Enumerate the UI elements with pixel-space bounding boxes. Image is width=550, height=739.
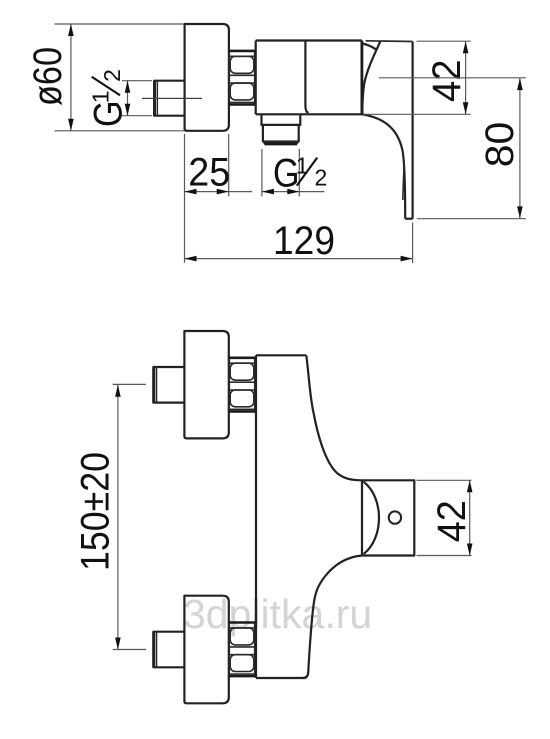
handle pivot hole (bottom view) [389, 511, 401, 523]
handle end plate (bottom view) [362, 480, 414, 555]
svg-text:25: 25 [188, 150, 230, 194]
stub top centerline + 150 extension (bottom view) [113, 383, 146, 385]
dimension 129 (top view) [185, 219, 413, 263]
wall flange bottom (bottom view) [184, 596, 228, 704]
hex nut top (bottom view) [229, 357, 256, 413]
svg-text:1: 1 [296, 152, 309, 178]
svg-text:2: 2 [315, 165, 328, 191]
dimension G1/2 (top view, left rotated) [87, 69, 152, 127]
wall stub bottom (bottom view) [153, 632, 184, 668]
eccentric wall stub (top view) [154, 81, 184, 116]
dimension G1/2 (top view, below spout) [262, 149, 327, 196]
svg-text:2: 2 [99, 69, 125, 82]
svg-text:150±20: 150±20 [73, 452, 117, 571]
handle blade (top view) [362, 41, 412, 219]
dimension ø60 (top view, left) [26, 24, 184, 131]
wall flange (top view) [185, 24, 229, 131]
svg-text:80: 80 [478, 122, 522, 168]
dimension 42 (top view, right) [363, 41, 471, 114]
dimension 80 (top view, far right) [379, 78, 526, 219]
svg-text:3dplitka.ru: 3dplitka.ru [183, 591, 372, 637]
svg-text:42: 42 [425, 60, 469, 103]
mixer body (bottom view) [256, 355, 362, 678]
hex nut bottom (bottom view) [229, 622, 256, 678]
mixer body (top view) [256, 41, 363, 115]
svg-text:42: 42 [430, 500, 474, 542]
wall flange top (bottom view) [184, 331, 228, 438]
svg-text:1: 1 [88, 90, 114, 103]
svg-text:G: G [87, 101, 131, 128]
wall stub top (bottom view) [153, 367, 184, 403]
dimension 25 (top view) [185, 134, 253, 263]
dimension 150±20 (bottom view, left) [73, 385, 120, 650]
svg-text:129: 129 [273, 219, 335, 263]
svg-text:ø60: ø60 [26, 47, 70, 106]
stub bottom centerline + 150 extension (bottom view) [113, 649, 146, 651]
hex nut (top view) [229, 50, 256, 106]
spout outlet (top view) [262, 115, 301, 144]
stub centerline (top view) [142, 97, 202, 99]
dimension 42 (bottom view, right) [417, 480, 475, 555]
